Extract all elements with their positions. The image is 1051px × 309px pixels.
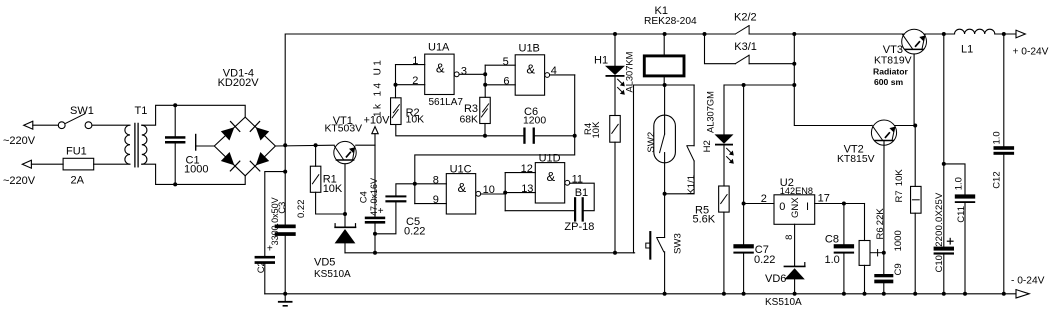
svg-text:I: I [806, 201, 809, 213]
svg-text:Radiator: Radiator [873, 67, 909, 77]
svg-text:U1C: U1C [450, 164, 472, 176]
svg-text:12: 12 [521, 163, 533, 175]
svg-text:R3: R3 [464, 103, 478, 115]
svg-text:600 sm: 600 sm [874, 77, 904, 87]
svg-text:10: 10 [483, 184, 495, 196]
svg-text:5.6K: 5.6K [693, 214, 716, 226]
svg-text:10K: 10K [323, 183, 343, 195]
svg-text:C11: C11 [956, 206, 967, 223]
svg-text:~220V: ~220V [3, 175, 36, 187]
svg-text:2: 2 [761, 193, 767, 205]
svg-text:AL307GM: AL307GM [706, 91, 716, 133]
svg-text:561LA7: 561LA7 [429, 97, 464, 108]
svg-text:1.0: 1.0 [825, 254, 840, 266]
svg-text:~220V: ~220V [3, 135, 36, 147]
svg-text:H2: H2 [702, 140, 713, 152]
svg-text:REK28-204: REK28-204 [644, 16, 697, 27]
svg-text:1.0: 1.0 [992, 131, 1003, 144]
svg-text:0.22: 0.22 [296, 200, 307, 219]
svg-text:T1: T1 [135, 105, 148, 117]
svg-text:68K: 68K [460, 114, 479, 125]
svg-text:C9: C9 [893, 263, 904, 275]
svg-text:H1: H1 [594, 54, 608, 66]
svg-text:&: & [436, 61, 445, 76]
svg-text:SW1: SW1 [70, 105, 94, 117]
svg-text:+: + [267, 244, 273, 255]
svg-text:0.22: 0.22 [754, 254, 775, 266]
svg-text:KT503V: KT503V [325, 123, 363, 134]
svg-text:6: 6 [503, 75, 509, 87]
svg-text:L1: L1 [961, 44, 973, 56]
svg-text:0.22: 0.22 [404, 226, 425, 238]
svg-text:- 0-24V: - 0-24V [1011, 275, 1045, 286]
svg-text:2: 2 [412, 75, 418, 87]
svg-text:SW3: SW3 [673, 233, 684, 254]
svg-text:8: 8 [784, 235, 795, 240]
svg-text:VD6: VD6 [765, 273, 786, 285]
svg-text:AL307KM: AL307KM [625, 52, 635, 93]
svg-text:KS510A: KS510A [765, 297, 802, 308]
svg-text:10K: 10K [591, 121, 602, 139]
svg-text:22K: 22K [875, 208, 886, 226]
svg-text:9: 9 [433, 194, 439, 206]
svg-text:SW2: SW2 [646, 132, 657, 153]
svg-text:&: & [547, 169, 556, 184]
svg-text:GNX: GNX [790, 197, 801, 218]
svg-text:11: 11 [572, 173, 583, 185]
svg-text:17: 17 [818, 192, 830, 204]
svg-text:R7: R7 [894, 190, 905, 202]
svg-text:1000: 1000 [184, 164, 208, 176]
svg-text:4: 4 [551, 65, 557, 77]
svg-text:2200.0X25V: 2200.0X25V [934, 192, 945, 247]
svg-text:1200: 1200 [523, 115, 546, 126]
svg-text:K3/1: K3/1 [734, 41, 757, 53]
svg-text:13: 13 [521, 183, 533, 195]
svg-text:8: 8 [433, 174, 439, 186]
svg-text:K2/2: K2/2 [734, 11, 757, 23]
svg-text:1000: 1000 [893, 230, 904, 251]
svg-text:10K: 10K [894, 169, 905, 187]
svg-text:+: + [378, 206, 384, 217]
svg-text:C2: C2 [256, 261, 267, 273]
svg-text:3: 3 [461, 65, 467, 77]
svg-text:KD202V: KD202V [218, 77, 260, 89]
svg-text:142EN8: 142EN8 [780, 186, 813, 196]
svg-text:C12: C12 [992, 171, 1003, 188]
svg-text:FU1: FU1 [66, 145, 87, 157]
svg-text:B1: B1 [575, 187, 588, 199]
svg-text:10K: 10K [406, 114, 425, 125]
svg-text:KS510A: KS510A [314, 269, 351, 280]
svg-text:1k 14 U1: 1k 14 U1 [372, 58, 383, 117]
svg-text:1: 1 [412, 55, 418, 67]
svg-text:&: & [526, 61, 535, 76]
svg-text:C8: C8 [825, 234, 839, 246]
svg-text:U1B: U1B [519, 42, 540, 54]
svg-text:K1/1: K1/1 [686, 175, 697, 195]
svg-text:5: 5 [503, 56, 509, 68]
svg-text:R6: R6 [875, 227, 886, 239]
svg-text:VT3: VT3 [883, 44, 903, 56]
svg-text:U1A: U1A [428, 42, 450, 54]
svg-text:3300.0x50V: 3300.0x50V [270, 197, 280, 245]
svg-text:KT819V: KT819V [874, 56, 912, 67]
svg-text:1.0: 1.0 [954, 177, 965, 190]
svg-text:ZP-18: ZP-18 [564, 221, 594, 233]
svg-text:U1D: U1D [539, 153, 561, 165]
svg-text:KT815V: KT815V [837, 154, 875, 165]
svg-text:2A: 2A [71, 175, 85, 187]
svg-text:&: & [458, 180, 467, 195]
svg-text:C4: C4 [359, 191, 370, 203]
svg-text:0: 0 [779, 201, 785, 213]
svg-text:VD5: VD5 [314, 257, 335, 269]
svg-text:+ 0-24V: + 0-24V [1013, 47, 1049, 58]
svg-text:C10: C10 [934, 255, 945, 272]
